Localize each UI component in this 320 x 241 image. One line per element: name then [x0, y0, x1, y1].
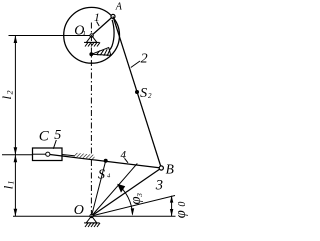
- mass centre S2 dot: [135, 90, 139, 94]
- pivot O ground hatching: [84, 223, 100, 227]
- svg-text:2: 2: [5, 91, 14, 95]
- crank 1 (link O1-A): [92, 16, 113, 35]
- phi0 arrow down: [170, 209, 173, 216]
- svg-text:2: 2: [148, 92, 152, 100]
- arc arrowhead top (thick): [117, 184, 125, 193]
- leader for label 1: [97, 22, 100, 27]
- construction line O shallow: [92, 196, 176, 217]
- rod upper parallel line: [62, 155, 79, 157]
- pin B: [159, 166, 163, 170]
- svg-text:1: 1: [83, 30, 86, 37]
- label phi0 (rotated): [173, 202, 189, 219]
- svg-text:A: A: [115, 2, 123, 13]
- leader for label 5: [53, 140, 56, 149]
- dimension arrow down at O level: [14, 209, 18, 217]
- phi0 arrow up: [170, 196, 173, 203]
- pin C: [46, 152, 50, 156]
- label l1 (rotated): [1, 181, 15, 190]
- extension line at slider level: [2, 154, 33, 156]
- leader for label 2: [131, 61, 140, 68]
- centerline O1-O (dash-dot): [90, 23, 92, 217]
- pivot O1 ground hatching: [84, 42, 100, 46]
- pivot O triangle: [86, 216, 97, 223]
- construction line O to rod (second rocker position): [92, 163, 138, 216]
- svg-text:C: C: [39, 129, 50, 145]
- svg-text:S: S: [98, 167, 105, 182]
- crank circle (path of A): [64, 7, 120, 63]
- extension line at O1 level: [9, 35, 92, 37]
- svg-text:O: O: [74, 203, 84, 218]
- pivot O1 pin: [90, 34, 93, 37]
- pivot O1 triangle: [86, 36, 97, 43]
- baseline through O: [13, 215, 176, 217]
- svg-text:l: l: [0, 96, 14, 100]
- link 2 (A-B): [113, 16, 161, 168]
- dimension arrow up at O1 level: [14, 36, 18, 44]
- slider 5 body: [33, 148, 63, 161]
- svg-text:3: 3: [155, 178, 163, 194]
- angle dimension arc phi3: [118, 185, 133, 215]
- svg-text:B: B: [166, 161, 174, 176]
- dimension arrows at slider level: [14, 147, 18, 155]
- svg-text:3: 3: [135, 193, 144, 198]
- angle dimension phi0 vertical line: [171, 196, 173, 216]
- svg-text:2: 2: [141, 52, 148, 67]
- line inside slider from rect left edge to pin C: [33, 153, 48, 155]
- left dimension vertical line: [14, 36, 16, 217]
- svg-text:1: 1: [7, 181, 16, 185]
- construction line O-S4: [92, 161, 106, 216]
- svg-text:φ: φ: [173, 210, 189, 218]
- rotation arrow tip dot: [89, 52, 93, 56]
- leader for label 4: [125, 158, 129, 163]
- svg-text:0: 0: [177, 202, 188, 207]
- pivot O pin: [90, 214, 93, 217]
- label l2 (rotated): [0, 91, 14, 100]
- svg-text:5: 5: [54, 128, 61, 143]
- svg-text:l: l: [1, 185, 15, 189]
- mass centre S4 dot: [104, 159, 108, 163]
- link 3 (rocker O-B): [92, 168, 162, 216]
- fixed guide hatch block: [75, 153, 95, 160]
- pin A: [111, 14, 115, 18]
- link 4 rod (C to B): [48, 154, 162, 168]
- label phi3 (rotated): [128, 193, 144, 205]
- rotation arrow hatched head: [91, 48, 111, 56]
- arc arrowhead bottom: [131, 208, 135, 216]
- svg-text:S: S: [140, 86, 147, 101]
- rotation arrow (omega, clockwise) body: [97, 20, 114, 55]
